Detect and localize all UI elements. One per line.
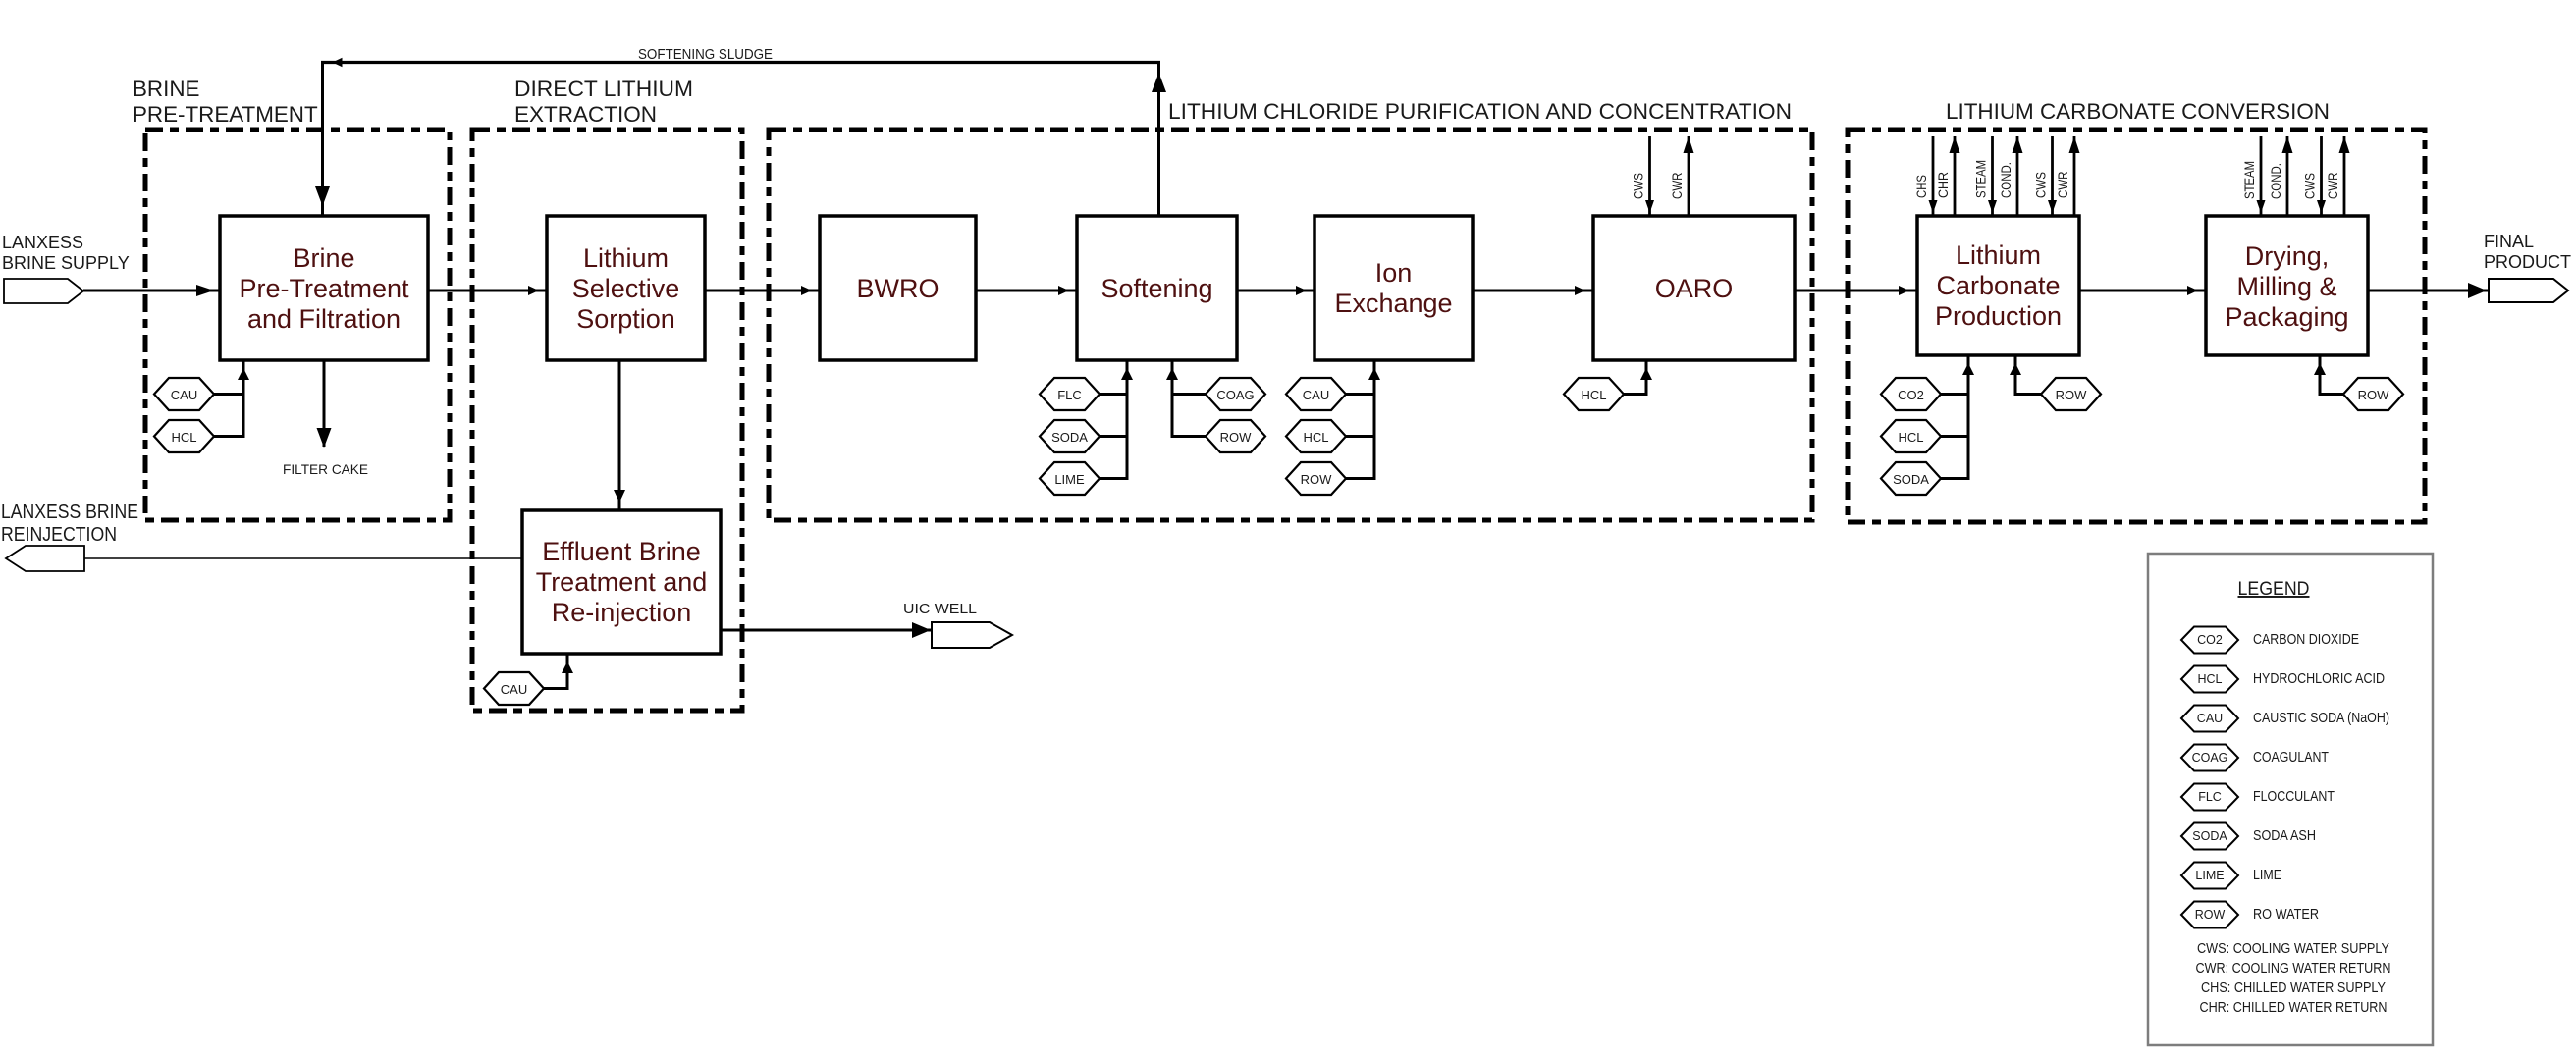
wire: softening sludge vertical from Softening top — [1157, 61, 1160, 215]
svg-text:FLC: FLC — [2198, 790, 2222, 804]
svg-text:SODA: SODA — [2192, 829, 2227, 843]
hexagon SODA (LCP feed) — [1881, 462, 1941, 495]
wire: effluent to UIC WELL — [721, 622, 932, 638]
process box: Ion Exchange — [1315, 216, 1473, 360]
svg-text:CAU: CAU — [501, 682, 527, 697]
wire: main flow segment 2 — [428, 286, 547, 295]
process box: Softening — [1077, 216, 1237, 360]
svg-text:LANXESS BRINE: LANXESS BRINE — [1, 502, 138, 523]
svg-text:FLOCCULANT: FLOCCULANT — [2253, 789, 2334, 805]
wire: main flow segment 1 — [83, 285, 220, 296]
svg-text:SODA: SODA — [1051, 430, 1088, 445]
svg-text:Softening: Softening — [1100, 274, 1212, 303]
svg-text:SODA ASH: SODA ASH — [2253, 828, 2316, 844]
label: CWS (LCP) — [2034, 172, 2049, 198]
hexagon HCL (Brine feed) — [154, 420, 214, 452]
section label: BRINE PRE-TREATMENT — [133, 77, 318, 127]
svg-text:DIRECT LITHIUM: DIRECT LITHIUM — [514, 77, 693, 101]
svg-text:HCL: HCL — [2197, 672, 2222, 686]
svg-text:Treatment and: Treatment and — [536, 567, 708, 597]
wire: FLC/SODA/LIME feed into Softening — [1100, 360, 1133, 479]
legend box with chemical symbol key — [2148, 554, 2433, 1045]
svg-text:Brine: Brine — [293, 243, 354, 273]
section label: LITHIUM CARBONATE CONVERSION — [1946, 99, 2330, 124]
label: CWR (LCP) — [2056, 171, 2070, 198]
hexagon LIME (Softening feed) — [1040, 462, 1100, 495]
svg-text:COAGULANT: COAGULANT — [2253, 750, 2329, 766]
terminal: LANXESS BRINE SUPPLY pentagon — [4, 279, 83, 303]
label: FILTER CAKE — [283, 461, 368, 477]
wire: ROW feed into Drying — [2314, 355, 2343, 395]
wire: Lithium Selective Sorption down to Effluent box — [614, 360, 625, 510]
svg-text:CAU: CAU — [2197, 712, 2223, 725]
label: COND. (Drying) — [2269, 163, 2283, 199]
svg-text:ROW: ROW — [1220, 430, 1253, 445]
hexagon HCL (OARO feed) — [1564, 378, 1624, 410]
svg-text:HCL: HCL — [1581, 388, 1606, 402]
svg-text:BRINE SUPPLY: BRINE SUPPLY — [2, 253, 130, 273]
hexagon ROW (Drying feed) — [2343, 378, 2403, 410]
svg-text:FILTER CAKE: FILTER CAKE — [283, 461, 368, 477]
svg-text:FINAL: FINAL — [2484, 232, 2534, 251]
svg-text:REINJECTION: REINJECTION — [1, 524, 117, 546]
svg-text:Effluent Brine: Effluent Brine — [542, 537, 701, 566]
svg-text:LIME: LIME — [2253, 868, 2281, 883]
svg-text:LIME: LIME — [2195, 869, 2224, 882]
hexagon CAU (Effluent feed) — [484, 672, 544, 705]
svg-text:Lithium: Lithium — [1956, 240, 2041, 270]
hexagon ROW (LCP feed) — [2041, 378, 2101, 410]
wire: effluent to LANXESS BRINE REINJECTION (thin) — [84, 557, 522, 559]
process box: Lithium Selective Sorption — [547, 216, 705, 360]
wire: STEAM into Lithium Carbonate Production — [1988, 136, 1997, 216]
svg-text:PRODUCT: PRODUCT — [2484, 252, 2571, 272]
arrowhead: sludge left arrow at corner — [333, 58, 343, 68]
svg-text:COND.: COND. — [1999, 162, 2013, 198]
wire: CHR out of Lithium Carbonate Production — [1950, 136, 1960, 216]
label: CWS (Drying) — [2303, 173, 2318, 199]
svg-text:SODA: SODA — [1893, 472, 1929, 487]
svg-text:COAG: COAG — [1216, 388, 1254, 402]
hexagon HCL (Ion Exchange feed) — [1286, 420, 1346, 452]
wire: CO2/HCL/SODA feed into Lithium Carbonate Production — [1941, 355, 1974, 479]
svg-text:ROW: ROW — [1301, 472, 1333, 487]
section label: LITHIUM CHLORIDE PURIFICATION AND CONCENTRATION — [1168, 99, 1792, 124]
svg-text:Sorption: Sorption — [576, 304, 675, 334]
terminal: UIC WELL pentagon — [932, 622, 1012, 648]
svg-text:CWS: CWS — [2034, 172, 2049, 198]
svg-text:CHR: CHR — [1936, 172, 1951, 198]
process box: Lithium Carbonate Production — [1917, 216, 2079, 355]
process box: Drying Milling and Packaging — [2206, 216, 2368, 355]
svg-text:ROW: ROW — [2195, 908, 2226, 922]
svg-text:OARO: OARO — [1655, 274, 1734, 303]
process box: BWRO — [820, 216, 976, 360]
wire: CWS into Lithium Carbonate Production — [2048, 136, 2057, 216]
wire: ROW feed into Lithium Carbonate Production — [2010, 355, 2041, 395]
label: LANXESS BRINE SUPPLY — [2, 233, 130, 273]
label: CHS (LCP) — [1914, 175, 1929, 198]
arrowhead: sludge up arrow below corner — [1152, 73, 1166, 92]
wire: CAU/HCL feed into Brine box — [214, 360, 249, 437]
label: SOFTENING SLUDGE — [638, 47, 773, 63]
svg-text:STEAM: STEAM — [2242, 161, 2257, 199]
svg-text:CO2: CO2 — [1898, 388, 1924, 402]
group box: DIRECT LITHIUM EXTRACTION (dashed) — [472, 130, 742, 711]
label: CWR (OARO) — [1670, 172, 1685, 199]
svg-text:COAG: COAG — [2192, 751, 2228, 765]
svg-text:Selective: Selective — [572, 274, 680, 303]
terminal: LANXESS BRINE REINJECTION pentagon — [6, 546, 84, 571]
svg-text:RO WATER: RO WATER — [2253, 907, 2319, 923]
svg-text:HCL: HCL — [1898, 430, 1923, 445]
wire: softening sludge vertical down into Brine Pre-Treatment — [321, 61, 324, 217]
svg-text:UIC WELL: UIC WELL — [903, 601, 977, 617]
svg-text:CAUSTIC SODA (NaOH): CAUSTIC SODA (NaOH) — [2253, 711, 2389, 726]
wire: main flow segment 4 — [976, 286, 1077, 295]
svg-text:LEGEND: LEGEND — [2238, 578, 2310, 600]
svg-text:COND.: COND. — [2269, 163, 2283, 199]
svg-text:CWR: COOLING WATER RETURN: CWR: COOLING WATER RETURN — [2196, 961, 2391, 977]
wire: CWR out of OARO — [1684, 136, 1694, 216]
label: CWR (Drying) — [2326, 172, 2340, 199]
svg-text:Pre-Treatment: Pre-Treatment — [239, 274, 409, 303]
hexagon CAU (Brine feed) — [154, 378, 214, 410]
svg-text:FLC: FLC — [1057, 388, 1082, 402]
svg-text:LIME: LIME — [1054, 472, 1085, 487]
wire: main flow segment 5 — [1237, 286, 1315, 295]
terminal: FINAL PRODUCT pentagon — [2489, 279, 2568, 302]
svg-text:Exchange: Exchange — [1334, 289, 1452, 318]
svg-text:Milling &: Milling & — [2236, 272, 2336, 301]
label: UIC WELL — [903, 601, 977, 617]
wire: main flow segment 3 — [705, 286, 820, 295]
hexagon SODA (Softening feed) — [1040, 420, 1100, 452]
svg-text:Carbonate: Carbonate — [1936, 271, 2060, 300]
svg-text:BWRO: BWRO — [857, 274, 939, 303]
svg-text:SOFTENING SLUDGE: SOFTENING SLUDGE — [638, 47, 773, 63]
hexagon CAU (Ion Exchange feed) — [1286, 378, 1346, 410]
wire: softening sludge horizontal run — [321, 61, 1160, 64]
group box: LITHIUM CHLORIDE PURIFICATION AND CONCENTRATION (dashed) — [769, 130, 1812, 520]
wire: CHS into Lithium Carbonate Production — [1929, 136, 1938, 216]
wire: Brine box to FILTER CAKE — [317, 361, 332, 448]
svg-text:CARBON DIOXIDE: CARBON DIOXIDE — [2253, 632, 2359, 648]
hexagon HCL (LCP feed) — [1881, 420, 1941, 452]
process box: Effluent Brine Treatment and Re-injection — [522, 510, 721, 654]
wire: CWR out of Lithium Carbonate Production — [2069, 136, 2080, 216]
svg-text:PRE-TREATMENT: PRE-TREATMENT — [133, 102, 318, 127]
wire: CWS into Drying Milling Packaging — [2317, 136, 2326, 216]
group box: LITHIUM CARBONATE CONVERSION (dashed) — [1848, 130, 2425, 522]
label: CHR (LCP) — [1936, 172, 1951, 198]
svg-text:CWR: CWR — [2056, 171, 2070, 198]
svg-text:CHS: CHS — [1914, 175, 1929, 198]
svg-text:CO2: CO2 — [2197, 633, 2223, 647]
svg-text:LITHIUM CARBONATE CONVERSION: LITHIUM CARBONATE CONVERSION — [1946, 99, 2330, 124]
hexagon COAG (Softening feed) — [1206, 378, 1265, 410]
svg-text:BRINE: BRINE — [133, 77, 199, 101]
label: FINAL PRODUCT — [2484, 232, 2571, 272]
svg-text:CWS: CWS — [1632, 173, 1646, 199]
wire: CWR out of Drying Milling Packaging — [2339, 136, 2350, 216]
hexagon ROW (Ion Exchange feed) — [1286, 462, 1346, 495]
svg-text:CAU: CAU — [1303, 388, 1329, 402]
process box: OARO — [1593, 216, 1795, 360]
svg-text:HCL: HCL — [171, 430, 196, 445]
svg-text:LITHIUM CHLORIDE PURIFICATION: LITHIUM CHLORIDE PURIFICATION AND CONCEN… — [1168, 99, 1792, 124]
label: CWS (OARO) — [1632, 173, 1646, 199]
svg-text:Ion: Ion — [1375, 258, 1413, 288]
svg-text:Re-injection: Re-injection — [552, 598, 692, 627]
wire: STEAM into Drying Milling Packaging — [2257, 136, 2266, 216]
label: COND. (LCP) — [1999, 162, 2013, 198]
label: STEAM (LCP) — [1974, 160, 1989, 198]
process box: Brine Pre-Treatment and Filtration — [220, 216, 428, 360]
wire: CAU feed into Effluent box — [544, 654, 573, 689]
label: STEAM (Drying) — [2242, 161, 2257, 199]
svg-text:CWR: CWR — [1670, 172, 1685, 199]
wire: COND. out of Drying Milling Packaging — [2282, 136, 2293, 216]
wire: CWS into OARO — [1645, 136, 1654, 216]
svg-text:EXTRACTION: EXTRACTION — [514, 102, 657, 127]
svg-text:ROW: ROW — [2358, 388, 2390, 402]
wire: COND. out of Lithium Carbonate Production — [2012, 136, 2023, 216]
svg-text:CAU: CAU — [171, 388, 197, 402]
svg-text:ROW: ROW — [2056, 388, 2088, 402]
wire: main flow to FINAL PRODUCT — [2368, 283, 2488, 298]
svg-text:Drying,: Drying, — [2245, 241, 2330, 271]
arrowhead: sludge down arrow into Brine box — [315, 186, 330, 206]
hexagon CO2 (LCP feed) — [1881, 378, 1941, 410]
svg-text:Lithium: Lithium — [583, 243, 669, 273]
wire: CAU/HCL/ROW feed into Ion Exchange — [1346, 360, 1380, 479]
svg-text:CHR: CHILLED WATER RETURN: CHR: CHILLED WATER RETURN — [2200, 1000, 2388, 1016]
svg-text:STEAM: STEAM — [1974, 160, 1989, 198]
svg-text:Packaging: Packaging — [2225, 302, 2348, 332]
svg-text:and Filtration: and Filtration — [247, 304, 401, 334]
wire: main flow segment 7 — [1795, 286, 1917, 295]
svg-text:HCL: HCL — [1303, 430, 1328, 445]
section label: DIRECT LITHIUM EXTRACTION — [514, 77, 693, 127]
svg-text:Production: Production — [1935, 301, 2062, 331]
hexagon FLC (Softening feed) — [1040, 378, 1100, 410]
svg-text:CWS: COOLING WATER SUPPLY: CWS: COOLING WATER SUPPLY — [2197, 941, 2389, 957]
svg-text:HYDROCHLORIC ACID: HYDROCHLORIC ACID — [2253, 671, 2385, 687]
hexagon ROW (Softening feed) — [1206, 420, 1265, 452]
group box: BRINE PRE-TREATMENT (dashed) — [145, 130, 450, 520]
svg-text:CHS: CHILLED WATER SUPPLY: CHS: CHILLED WATER SUPPLY — [2201, 980, 2386, 996]
svg-text:CWS: CWS — [2303, 173, 2318, 199]
wire: main flow segment 8 — [2079, 286, 2206, 295]
svg-text:LANXESS: LANXESS — [2, 233, 83, 252]
wire: COAG/ROW feed into Softening — [1166, 360, 1206, 437]
svg-text:CWR: CWR — [2326, 172, 2340, 199]
label: LANXESS BRINE REINJECTION — [1, 502, 138, 546]
wire: main flow segment 6 — [1473, 286, 1593, 295]
wire: HCL feed into OARO — [1621, 360, 1652, 395]
